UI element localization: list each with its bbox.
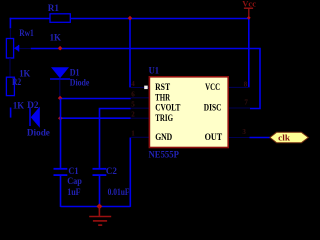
junction dot TRIG node (58, 116, 63, 121)
svg-text:7: 7 (244, 99, 248, 107)
diode D1 (51, 67, 69, 78)
svg-text:VCC: VCC (205, 82, 220, 92)
wire RST vertical from Vcc rail (129, 19, 131, 88)
wire R2 bottom floating segment (10, 108, 12, 118)
pin RST marker (white square) (144, 86, 148, 90)
resistor R1 (50, 14, 70, 22)
wire top rail left of R1 (10, 18, 50, 20)
ground (89, 206, 111, 225)
potentiometer Rw1 (6, 39, 13, 59)
svg-text:0.01uF: 0.01uF (108, 187, 130, 198)
wire wiper stub (dark) (20, 48, 31, 50)
svg-text:R1: R1 (48, 3, 59, 14)
svg-text:GND: GND (155, 132, 172, 142)
svg-text:1K: 1K (50, 33, 62, 44)
svg-text:4: 4 (131, 80, 135, 88)
wire TRIG row (61, 117, 131, 119)
wire top rail R1 to Vcc (70, 18, 249, 20)
svg-text:DISC: DISC (204, 103, 222, 113)
svg-text:1uF: 1uF (67, 187, 81, 198)
svg-text:6: 6 (131, 90, 135, 98)
wire C1 to ground rail (60, 176, 62, 207)
junction dot RST branch (128, 16, 133, 21)
svg-text:1: 1 (131, 130, 135, 138)
svg-text:2: 2 (131, 111, 135, 119)
svg-text:TRIG: TRIG (155, 113, 173, 123)
wire wiper rail to DISC column (31, 49, 260, 109)
net flag clk (270, 132, 309, 142)
wire OUT to clk (250, 137, 270, 139)
svg-text:1K: 1K (13, 100, 25, 111)
svg-text:CVOLT: CVOLT (155, 103, 180, 113)
op-amp U1 box NE555P (149, 77, 228, 148)
svg-text:THR: THR (155, 93, 170, 103)
svg-text:R2: R2 (12, 77, 21, 88)
wire D1 cathode stub (dark) (59, 80, 61, 98)
svg-text:U1: U1 (149, 66, 160, 77)
wire C2 to ground rail (99, 176, 101, 207)
svg-text:NE555P: NE555P (149, 149, 180, 160)
svg-text:Diode: Diode (27, 127, 51, 138)
svg-text:Diode: Diode (70, 78, 90, 89)
wire GND return column (129, 138, 131, 207)
svg-text:5: 5 (131, 101, 135, 109)
wire CVOLT row (100, 109, 131, 168)
diode D2 (29, 108, 31, 126)
svg-text:8: 8 (244, 80, 248, 88)
junction dot THR node (58, 96, 63, 101)
svg-text:OUT: OUT (205, 132, 223, 142)
power port Vcc (244, 7, 253, 9)
svg-text:Vcc: Vcc (242, 0, 256, 8)
junction dot at wiper rail (58, 46, 63, 51)
capacitor C1 (54, 168, 68, 170)
wire pot top stub (dark) (9, 28, 11, 39)
junction dot ground node (97, 204, 103, 210)
svg-text:RST: RST (155, 82, 170, 92)
wiper arrow of Rw1 (14, 45, 18, 51)
wire vertical to pot top (9, 18, 11, 29)
pin stubs right (dark) (228, 86, 249, 88)
svg-text:3: 3 (242, 128, 246, 136)
wire ground rail (61, 206, 131, 208)
svg-text:Rw1: Rw1 (19, 28, 34, 39)
svg-text:C2: C2 (106, 166, 117, 177)
svg-text:clk: clk (278, 133, 290, 142)
pin stubs left (dark) (131, 87, 150, 89)
capacitor C2 (93, 168, 107, 170)
resistor R2 (6, 77, 14, 95)
svg-text:D2: D2 (27, 100, 39, 111)
wire VCC pin vertical (248, 19, 250, 88)
wire pot bottom to R2 (dark stubs) (9, 58, 11, 77)
wire C1 column (60, 99, 62, 168)
wire THR row (61, 98, 131, 100)
svg-text:Cap: Cap (67, 176, 82, 187)
